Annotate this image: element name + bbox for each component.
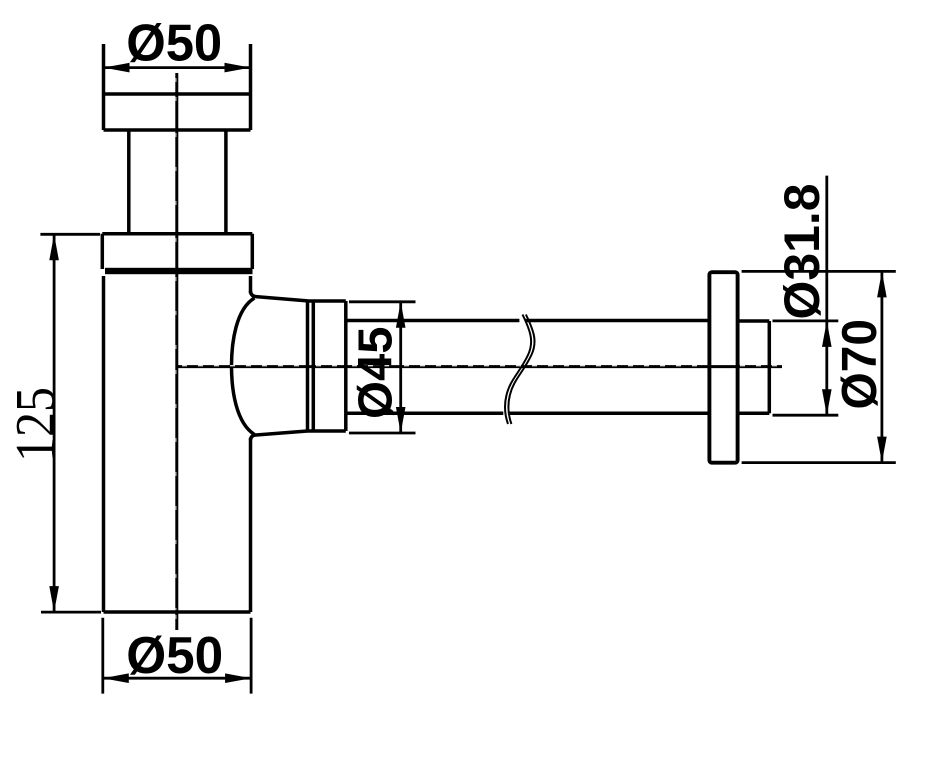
svg-text:Ø50: Ø50 bbox=[126, 15, 222, 73]
seal band bbox=[105, 268, 253, 274]
body bbox=[104, 276, 251, 612]
arrow 125 down bbox=[49, 586, 59, 612]
dim 31.8 extensions bbox=[773, 321, 839, 415]
centerlines bbox=[177, 73, 782, 630]
nut bbox=[308, 301, 346, 431]
arrowheads bbox=[49, 63, 886, 683]
body-pipe intersection arc bbox=[232, 298, 255, 435]
tail pipe bbox=[738, 321, 770, 413]
svg-text:Ø45: Ø45 bbox=[350, 327, 403, 420]
pipe break symbol bbox=[505, 315, 535, 425]
svg-text:Ø70: Ø70 bbox=[832, 319, 887, 410]
dim bottom diameter 50 line bbox=[103, 677, 251, 680]
dim bottom diameter 50 extensions bbox=[103, 618, 251, 694]
arrow bottom50 left bbox=[103, 673, 129, 683]
outlet pipe top edge bbox=[346, 319, 710, 323]
dim line top diameter 50 bbox=[104, 66, 251, 69]
arrow 70 down bbox=[877, 437, 887, 463]
dim 125 line bbox=[53, 234, 56, 612]
svg-text:125: 125 bbox=[5, 387, 67, 462]
arrow 45 down bbox=[396, 407, 406, 433]
wall flange bbox=[709, 272, 737, 463]
transition cone bottom bbox=[251, 431, 308, 440]
top inlet flange bbox=[104, 44, 251, 130]
dim 125 extension bottom bbox=[41, 611, 101, 614]
arrow 125 up bbox=[49, 234, 59, 260]
dim 45 line bbox=[399, 302, 402, 433]
arrow top50 right bbox=[225, 63, 251, 73]
dimension lines bbox=[40, 68, 895, 694]
outlet pipe bottom edge bbox=[346, 411, 710, 415]
dim 31.8 line bbox=[825, 176, 828, 416]
arrow 45 up bbox=[396, 302, 406, 328]
dim 70 extensions bbox=[742, 271, 896, 462]
horizontal centerline bbox=[178, 365, 782, 368]
vertical centerline bbox=[175, 73, 178, 630]
ring bbox=[308, 301, 314, 431]
arrow 31.8 down bbox=[822, 389, 832, 415]
transition cone top bbox=[251, 291, 308, 301]
dim 70 line bbox=[881, 271, 884, 462]
arrow bottom50 right bbox=[225, 673, 251, 683]
svg-text:Ø31.8: Ø31.8 bbox=[774, 184, 830, 320]
arrow 70 up bbox=[877, 271, 887, 297]
arrow 31.8 up bbox=[822, 321, 832, 347]
svg-text:Ø50: Ø50 bbox=[126, 627, 223, 685]
inlet pipe bbox=[129, 130, 226, 234]
arrow top50 left bbox=[104, 63, 130, 73]
body top flange bbox=[102, 234, 252, 269]
dim 125 extension top bbox=[40, 233, 100, 236]
centerline nick texture bbox=[176, 78, 780, 628]
dim 45 extensions bbox=[349, 302, 416, 433]
